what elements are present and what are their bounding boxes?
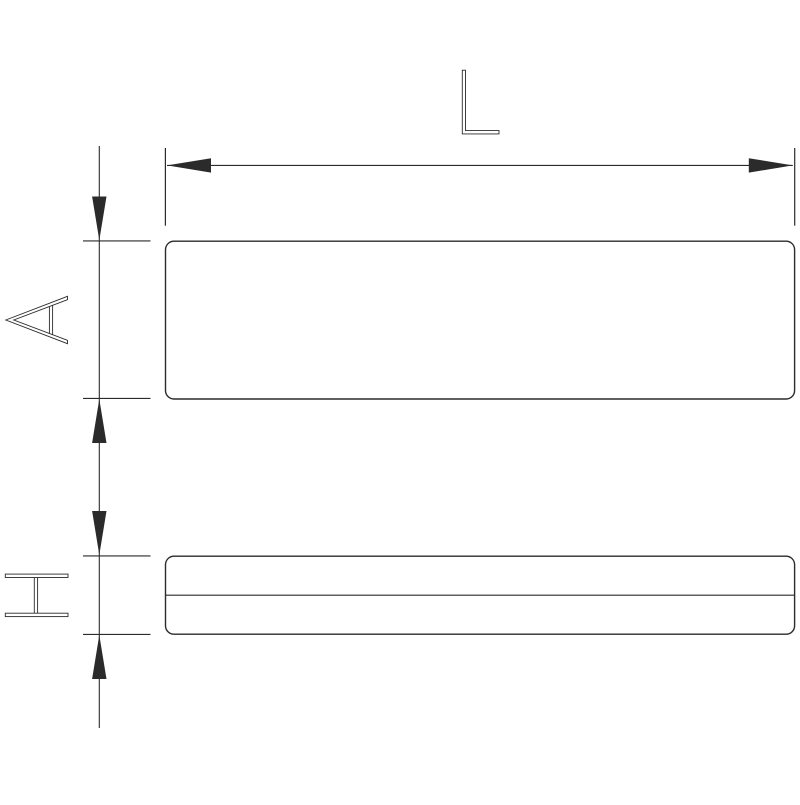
label A crossbar [48, 307, 50, 334]
vertical dimension line for A and H [98, 146, 100, 728]
dimension L: left arrowhead [167, 158, 211, 172]
extension line A top [83, 240, 151, 242]
extension line A bottom [83, 397, 151, 399]
arrowhead A top (pointing down) [92, 197, 106, 241]
dimension L: left extension line [164, 148, 166, 226]
side view: middle split line [166, 594, 795, 596]
dimension L: right extension line [794, 148, 796, 226]
side view: rounded rectangle profile [166, 556, 795, 634]
arrowhead A bottom (pointing up) [92, 399, 106, 443]
arrowhead H top (pointing down) [92, 511, 106, 555]
top view: rounded rectangle plate [166, 241, 795, 399]
extension line H top [83, 555, 151, 557]
label A (width) outline letter rotated 90deg, apex left [6, 296, 68, 343]
extension line H bottom [83, 633, 151, 635]
dimension L: right arrowhead [749, 158, 793, 172]
H top bar [5, 574, 68, 577]
H crossbar [33, 578, 35, 614]
arrowhead H bottom (pointing up) [92, 635, 106, 679]
H bottom bar [5, 613, 68, 616]
dimension L: dimension line [167, 164, 793, 166]
label L (length) outline letter [462, 70, 499, 134]
